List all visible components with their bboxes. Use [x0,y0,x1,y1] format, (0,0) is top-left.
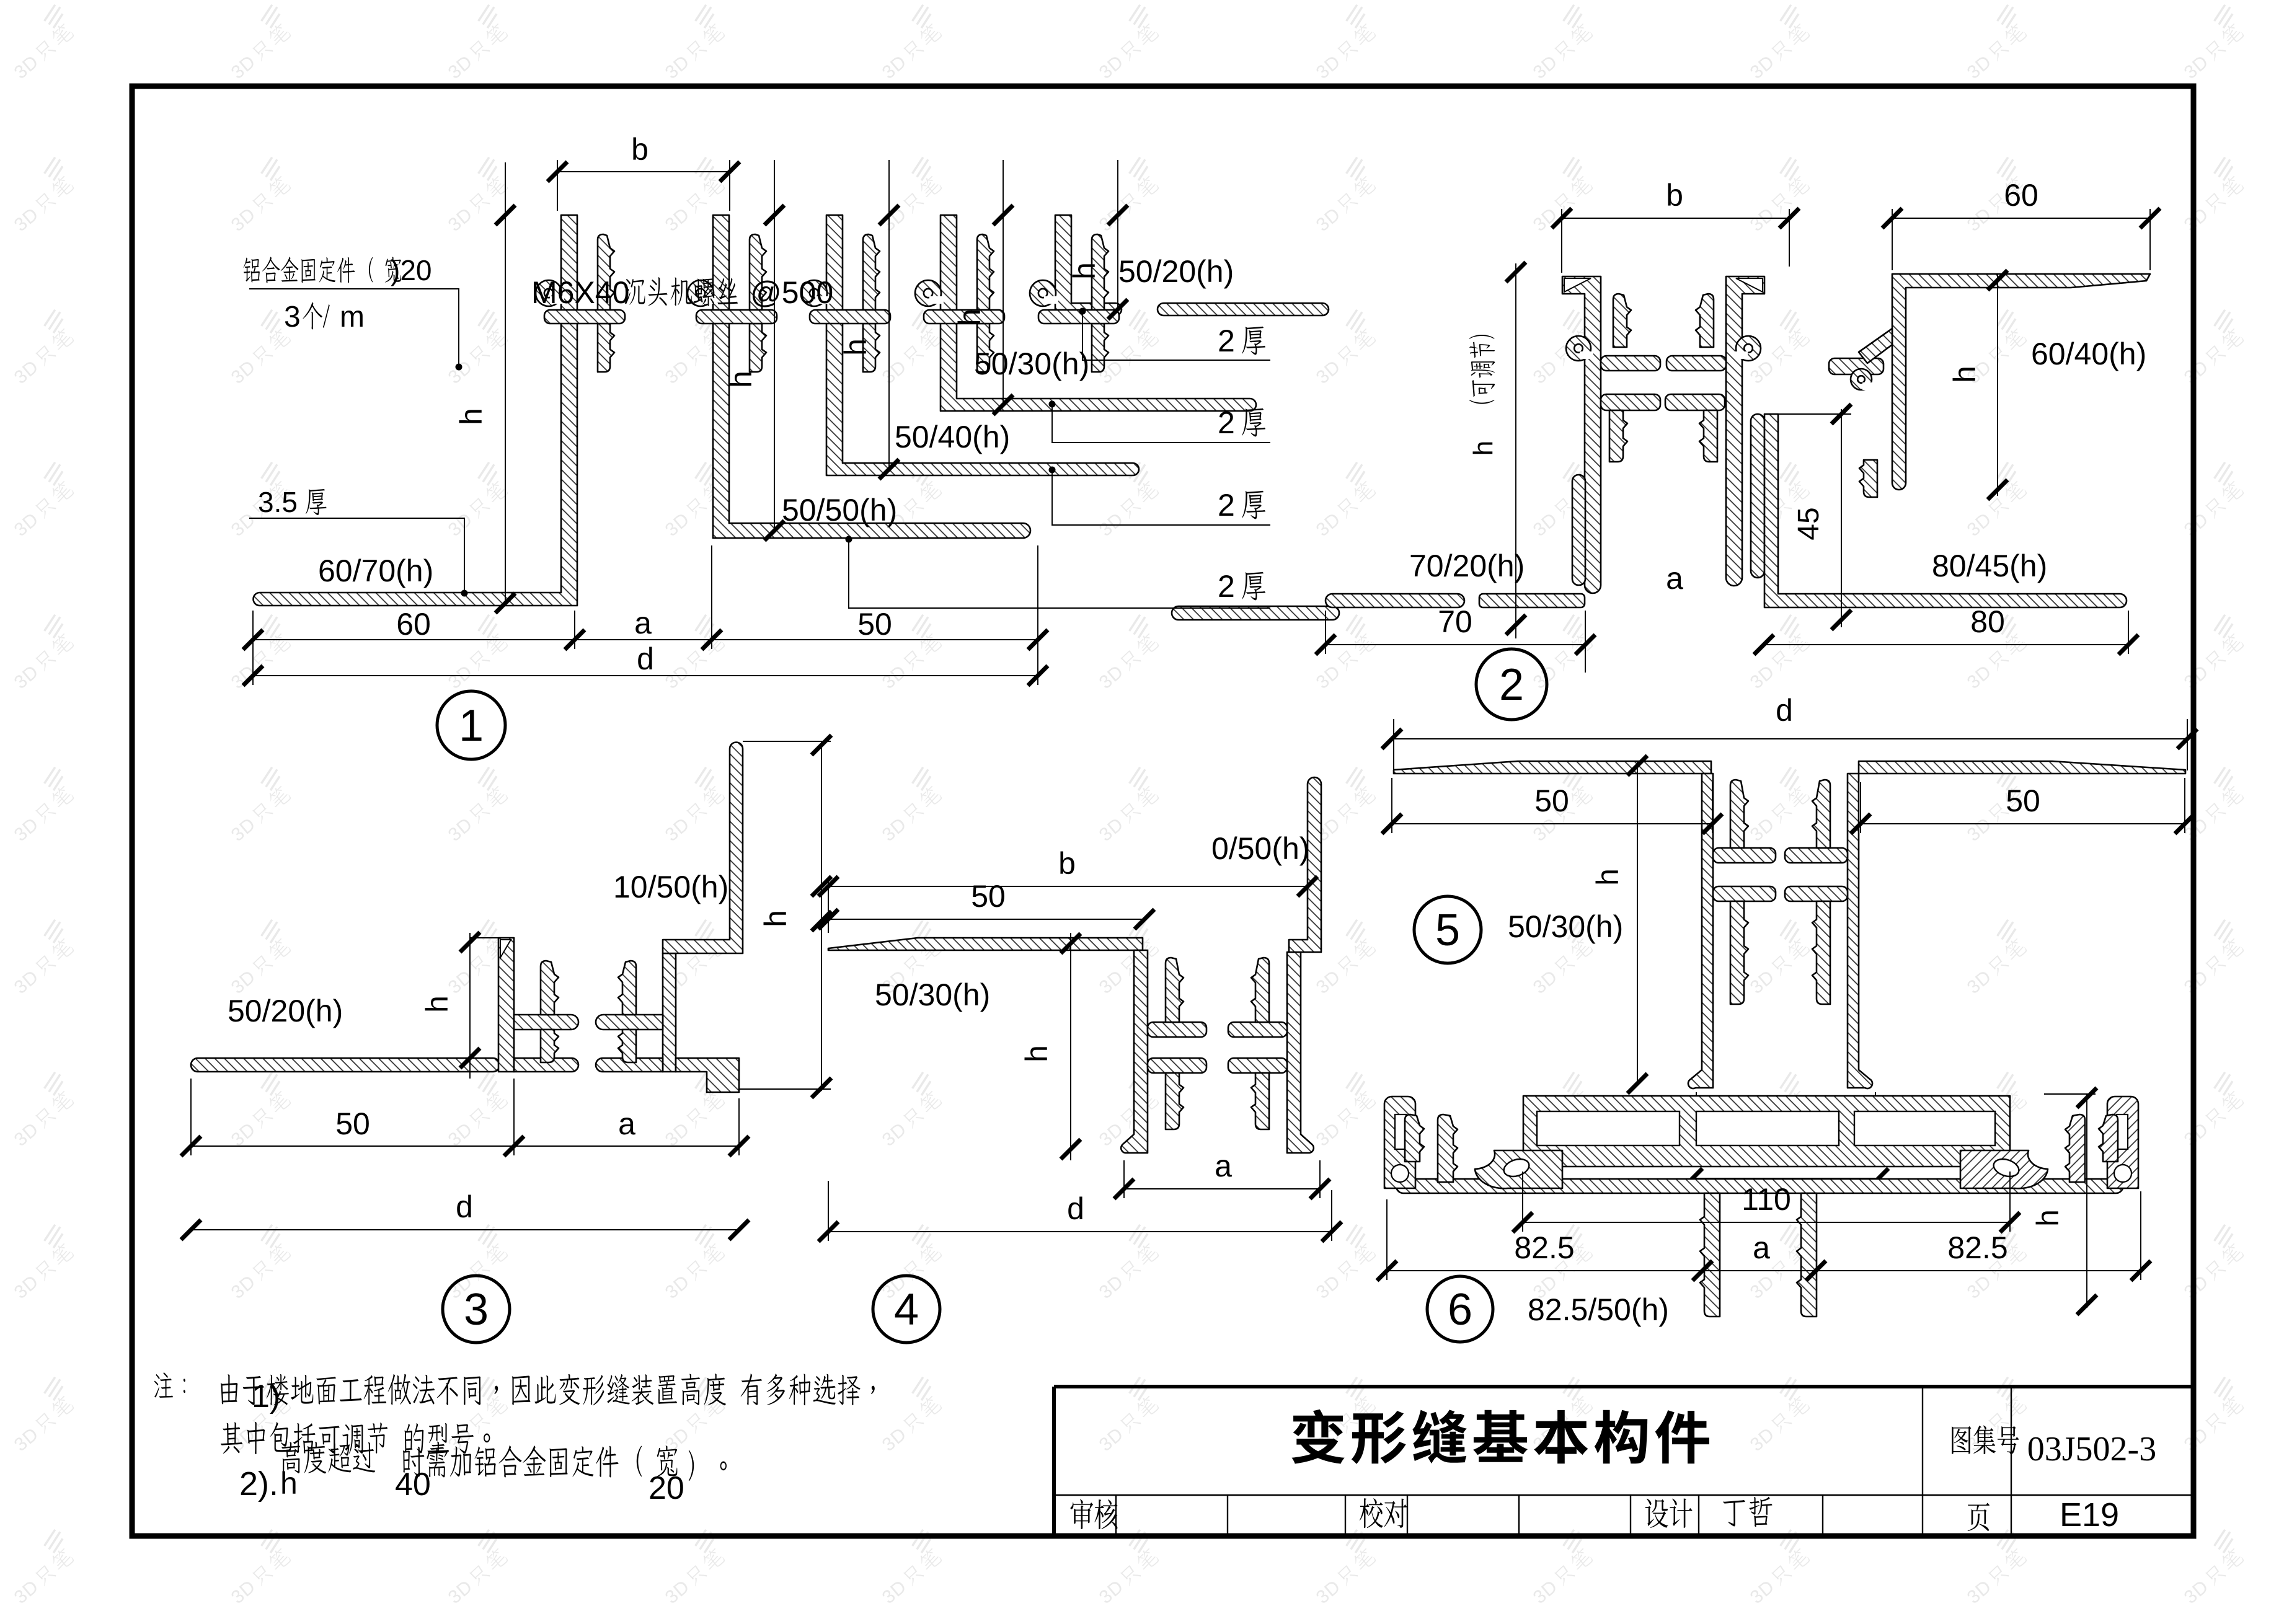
svg-text:50: 50 [1534,783,1569,818]
cover strip 2 thick bottom [1172,606,1339,620]
detail number circle 2 [1476,649,1547,720]
svg-text:@500: @500 [750,275,833,310]
right comb d3 [663,953,676,1072]
60/40 left wing and hook [1859,329,1892,363]
label 校对 [1360,1498,1407,1528]
profile 50/50(h) L2 [713,215,1030,538]
right comb d4 [1287,952,1314,1153]
profile 50/40(h) L3 [826,215,1139,475]
profile 50/30(h) L4 [941,215,1256,411]
leader aluminium fixing piece [244,257,401,283]
svg-text:50: 50 [971,879,1006,914]
svg-text:h: h [838,338,873,356]
detail number circle 6 [1427,1276,1493,1342]
profile 10/50(h) [663,743,743,954]
dim h d3 left [470,933,498,1079]
detail number circle 4 [873,1276,940,1343]
svg-text:60/70(h): 60/70(h) [318,554,433,588]
svg-text:82.5: 82.5 [1947,1230,2007,1265]
prongs d6 [1700,1193,1720,1317]
top wedge strip d4 [828,938,1143,950]
svg-text:82.5: 82.5 [1514,1230,1574,1265]
dim b detail1 [557,160,730,211]
label 设计 [1645,1499,1693,1528]
svg-text:3: 3 [464,1285,489,1335]
svg-text:60/40(h): 60/40(h) [2031,337,2146,371]
svg-text:4: 4 [894,1285,919,1335]
svg-text:80: 80 [1970,604,2005,639]
svg-text:70/20(h): 70/20(h) [1409,549,1525,583]
comb serrations at x=1530 [977,234,994,310]
svg-text:60: 60 [396,607,431,642]
name 丁哲 [1723,1497,1772,1527]
svg-text:3.5: 3.5 [258,486,298,518]
svg-text:2: 2 [1218,324,1235,358]
dim h 60/40 [1997,274,1998,496]
svg-text:40: 40 [395,1467,431,1503]
comb serrations at x=1346 [863,234,880,310]
svg-text:m: m [340,301,365,333]
dim b d5 [1693,1178,1879,1179]
svg-text:h: h [1947,366,1982,383]
dim h d6 [2044,1094,2096,1308]
profile 60/40(h) [1892,274,2150,490]
svg-text:h: h [1590,868,1625,886]
svg-text:a: a [1666,561,1683,596]
svg-text:50: 50 [335,1106,370,1141]
dims 82.5 / a [1387,1191,2141,1280]
dim 50 left d5 [1392,778,1712,833]
left comb d4 [1121,950,1148,1153]
dim 60 / a / 50 bottom line [253,545,1038,685]
svg-text:10/50(h): 10/50(h) [613,870,728,904]
svg-text:50/30(h): 50/30(h) [875,977,990,1012]
svg-text:50/30(h): 50/30(h) [974,346,1089,381]
svg-text:50/50(h): 50/50(h) [782,493,897,527]
svg-text:)20: )20 [391,254,432,286]
svg-text:50/40(h): 50/40(h) [895,420,1010,454]
svg-text:2: 2 [1499,660,1524,710]
dim d detail1 [253,675,1038,676]
svg-text:E19: E19 [2060,1496,2119,1534]
dim h adjustable [1515,263,1516,638]
profile 60/70(h) L1 [254,215,578,606]
cover strip 2 thick top [1157,303,1329,316]
right comb profile [1726,276,1764,586]
right comb foot with step [676,1058,739,1092]
svg-text:h: h [952,309,987,326]
svg-text:5: 5 [1435,906,1460,955]
svg-text:50/20(h): 50/20(h) [1118,254,1234,289]
plate end curl [1475,1150,1562,1188]
svg-text:b: b [631,132,648,167]
comb serrations at x=918 [598,234,614,310]
left comb d5 [1688,774,1713,1088]
svg-text:2: 2 [1218,405,1235,440]
svg-text:h: h [1067,262,1102,280]
svg-text:a: a [1215,1149,1232,1183]
profile 0/50(h) [1289,777,1321,952]
left comb d3 [498,938,514,1072]
svg-text:80/45(h): 80/45(h) [1932,549,2047,583]
svg-text:6: 6 [1448,1285,1472,1335]
svg-text:82.5/50(h): 82.5/50(h) [1528,1292,1669,1327]
dim a d4 [1124,1160,1320,1198]
svg-text:a: a [618,1106,635,1141]
dim 110 [1523,1172,2010,1232]
right slider capsule [1751,414,1764,578]
label 图集号 [1952,1426,2019,1454]
dim h d5 [1637,761,1638,1086]
svg-text:d: d [1067,1191,1084,1226]
end assemblies d6 [1384,1097,1562,1188]
svg-text:2).: 2). [239,1465,278,1503]
shared dim d detail2/5 [1392,719,2187,770]
left comb profile [1562,276,1601,593]
profile 50/20(h) L5 [1055,215,1122,316]
plate end curl [1960,1150,2048,1188]
title block [1054,1387,2193,1536]
svg-text:2: 2 [1218,488,1235,523]
dim h detail1 main [505,162,506,603]
detail number circle 1 [437,691,505,759]
bottom strip centre piece [1479,594,1585,607]
leader M6X40 screw note [624,277,738,306]
svg-text:h: h [454,408,489,425]
title text 变形缝基本构件 [1291,1410,1709,1464]
dim 50 / a d3 [191,1079,739,1155]
dim a d5 [1696,1092,1875,1147]
right comb d5 [1848,774,1872,1088]
dim h d4 [1070,933,1071,1160]
svg-text:h: h [758,910,793,927]
right wedge strip d5 [1859,761,2185,774]
svg-text:1: 1 [459,701,484,751]
svg-text:h: h [724,371,758,388]
svg-text:b: b [1666,178,1683,213]
label 审核 [1071,1499,1118,1529]
svg-text:70: 70 [1438,604,1472,639]
svg-text:d: d [637,642,654,676]
svg-text:50/20(h): 50/20(h) [228,994,343,1028]
dim 60 detail2 [1892,209,2150,270]
svg-text:a: a [634,606,652,640]
dim d d3 [191,1229,739,1230]
dim b d4 [828,877,1308,933]
dim 50 d4 [828,919,1144,920]
svg-text:h: h [2030,1209,2065,1227]
svg-text:45: 45 [1792,507,1825,540]
svg-text:h: h [1019,1045,1054,1062]
svg-text:20: 20 [648,1470,684,1506]
svg-text:50: 50 [857,607,892,642]
top plate with slots [1523,1096,2010,1167]
svg-text:h: h [1468,441,1498,456]
detail number circle 5 [1414,896,1481,963]
dim 50 right d5 [1861,778,2185,833]
svg-text:M6X40: M6X40 [531,275,629,310]
dim 45 [1778,409,1851,627]
svg-text:2: 2 [1218,569,1235,604]
dim h d3 right [739,741,831,1091]
svg-text:b: b [1058,846,1076,881]
label 页 [1968,1503,1990,1532]
svg-text:d: d [456,1189,473,1224]
comb serrations at x=1715 [1092,234,1109,310]
svg-text:03J502-3: 03J502-3 [2027,1430,2156,1468]
strip 50/20(h) [191,1058,500,1072]
profile 80/45(h) [1764,414,2127,607]
svg-text:3: 3 [284,301,301,333]
dim d d4 [828,1181,1332,1241]
dims h nested [774,160,775,531]
left wedge strip d5 [1394,761,1711,774]
dim b detail2 [1562,209,1789,273]
note text [154,1372,185,1398]
svg-text:110: 110 [1742,1182,1791,1217]
leader 3.5 thick [306,489,327,515]
svg-text:h: h [420,995,454,1013]
bottom plate d6 [1396,1168,2123,1193]
svg-text:50/30(h): 50/30(h) [1508,909,1623,944]
bottom strip 70/20(h) [1326,594,1464,607]
svg-text:50: 50 [2006,783,2040,818]
svg-text:1): 1) [252,1379,280,1414]
svg-text:0/50(h): 0/50(h) [1211,831,1309,866]
dim 80 [1764,611,2128,654]
svg-text:d: d [1776,693,1793,728]
comb serrations at x=1163 [750,234,766,310]
dim 70 [1326,611,1585,673]
svg-text:60: 60 [2004,178,2038,213]
left slider capsule [1572,475,1585,585]
detail number circle 3 [443,1276,510,1343]
svg-text:a: a [1753,1230,1770,1265]
